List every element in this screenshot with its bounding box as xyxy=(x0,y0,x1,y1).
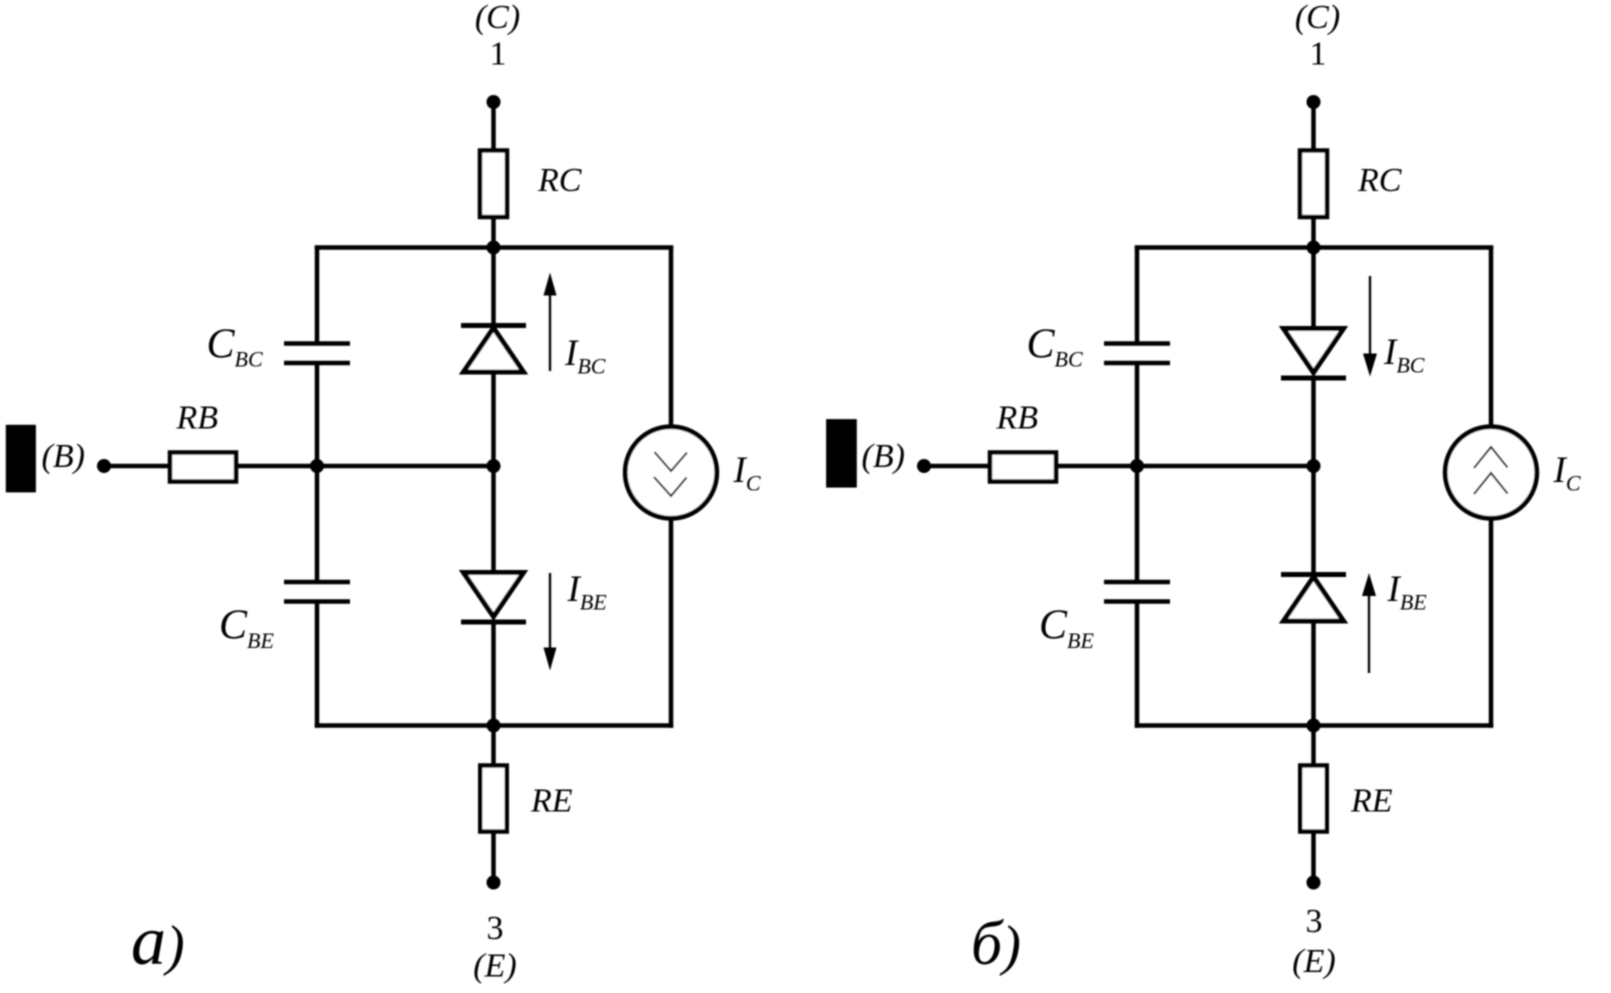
resistor RB circuit b xyxy=(990,453,1056,482)
wire rail to current source circuit b xyxy=(1489,246,1494,429)
junction top node circuit b xyxy=(1307,241,1321,255)
svg-text:3: 3 xyxy=(487,910,504,947)
resistor RC circuit b xyxy=(1300,151,1327,218)
redaction mark circuit b xyxy=(826,419,857,488)
wire bottom rail to RE circuit a xyxy=(491,726,496,768)
svg-text:IC: IC xyxy=(1553,450,1581,496)
svg-text:б): б) xyxy=(971,910,1021,978)
wire CBE to bottom rail circuit a xyxy=(315,604,320,728)
svg-text:(E): (E) xyxy=(1292,943,1335,980)
CBE label circuit a xyxy=(219,603,274,654)
RE value label circuit a xyxy=(530,783,573,820)
current source chevrons circuit b xyxy=(1474,447,1508,494)
svg-text:CBC: CBC xyxy=(207,322,263,372)
capacitor CBE circuit b xyxy=(1104,582,1170,602)
wire B to RB circuit b xyxy=(924,464,992,469)
resistor RE circuit a xyxy=(480,766,507,832)
svg-text:a): a) xyxy=(131,903,185,980)
junction top node circuit a xyxy=(487,241,501,255)
svg-text:1: 1 xyxy=(1310,36,1327,73)
current source IC circuit b xyxy=(1445,427,1537,519)
junction base-left node circuit b xyxy=(1130,459,1144,473)
node (E) label circuit b xyxy=(1292,943,1335,980)
svg-text:(E): (E) xyxy=(473,948,516,985)
RB value label circuit b xyxy=(996,400,1039,437)
IC label circuit b xyxy=(1553,450,1581,496)
wire C to RC circuit b xyxy=(1311,102,1316,152)
svg-text:IBE: IBE xyxy=(1387,569,1428,615)
capacitor CBE circuit a xyxy=(284,582,350,602)
svg-text:CBE: CBE xyxy=(1039,603,1094,654)
svg-text:(C): (C) xyxy=(475,0,520,36)
terminal C node circuit b xyxy=(1307,95,1321,109)
svg-text:3: 3 xyxy=(1306,903,1323,940)
wire bottom rail circuit a xyxy=(315,723,673,728)
current source IC circuit a xyxy=(625,427,717,519)
CBC label circuit b xyxy=(1027,322,1083,372)
current arrow IBE circuit b xyxy=(1362,573,1376,673)
capacitor CBC circuit b xyxy=(1104,344,1170,364)
figure label a) xyxy=(131,903,185,980)
wire RC to top rail circuit a xyxy=(491,217,496,250)
wire CBE to bottom rail circuit b xyxy=(1135,604,1140,728)
capacitor CBC circuit a xyxy=(284,344,350,364)
diode VBC circuit b xyxy=(1281,329,1346,379)
wire B to RB circuit a xyxy=(104,464,172,469)
CBE label circuit b xyxy=(1039,603,1094,654)
svg-text:1: 1 xyxy=(490,36,507,73)
junction base-mid node circuit b xyxy=(1307,459,1321,473)
IBC label circuit b xyxy=(1383,332,1425,378)
IBE label circuit b xyxy=(1387,569,1428,615)
svg-text:RB: RB xyxy=(996,400,1039,437)
wire current source to bottom rail circuit b xyxy=(1489,517,1494,728)
terminal E node circuit a xyxy=(487,876,501,890)
RC value label circuit a xyxy=(537,162,582,199)
wire RC to top rail circuit b xyxy=(1311,217,1316,250)
node (C) label circuit b xyxy=(1295,0,1340,36)
wire bottom rail circuit b xyxy=(1135,723,1493,728)
node (B) label circuit b xyxy=(862,438,905,475)
wire bottom rail to RE circuit b xyxy=(1311,726,1316,768)
terminal B node circuit b xyxy=(917,459,931,473)
current arrow IBC circuit a xyxy=(544,273,557,372)
node (E) label circuit a xyxy=(473,948,516,985)
wire RB to base node circuit b xyxy=(1056,464,1314,469)
resistor RE circuit b xyxy=(1300,766,1327,832)
wire current source to bottom rail circuit a xyxy=(669,517,674,728)
svg-text:IC: IC xyxy=(733,450,761,496)
wire base node to diode BE circuit a xyxy=(491,466,496,574)
pin 3 label circuit b xyxy=(1306,903,1323,940)
node (B) label circuit a xyxy=(42,438,85,475)
svg-text:RE: RE xyxy=(530,783,573,820)
wire top rail circuit a xyxy=(315,245,673,250)
pin 1 label circuit b xyxy=(1310,36,1327,73)
diode VBC circuit a xyxy=(461,326,526,373)
wire CBC to base node circuit b xyxy=(1135,365,1140,466)
wire base node to CBE circuit a xyxy=(315,466,320,580)
wire rail to CBC circuit a xyxy=(315,246,320,342)
terminal E node circuit b xyxy=(1307,876,1321,890)
wire rail to diode BC circuit b xyxy=(1311,248,1316,330)
pin 3 label circuit a xyxy=(487,910,504,947)
junction bottom node circuit a xyxy=(487,719,501,733)
svg-text:(C): (C) xyxy=(1295,0,1340,36)
junction base-mid node circuit a xyxy=(487,459,501,473)
svg-text:RC: RC xyxy=(537,162,582,199)
RE value label circuit b xyxy=(1350,783,1393,820)
terminal B node circuit a xyxy=(97,459,111,473)
wire diode BE to bottom rail circuit a xyxy=(491,622,496,726)
diode VBE circuit b xyxy=(1281,575,1346,622)
RB value label circuit a xyxy=(176,400,219,437)
node (C) label circuit a xyxy=(475,0,520,36)
wire CBC to base node circuit a xyxy=(315,365,320,466)
wire diode BC to base node circuit a xyxy=(491,372,496,466)
svg-text:CBC: CBC xyxy=(1027,322,1083,372)
svg-text:RE: RE xyxy=(1350,783,1393,820)
pin 1 label circuit a xyxy=(490,36,507,73)
RC value label circuit b xyxy=(1357,162,1402,199)
current source chevrons circuit a xyxy=(654,452,687,496)
svg-text:RB: RB xyxy=(176,400,219,437)
svg-text:CBE: CBE xyxy=(219,603,274,654)
wire base node to CBE circuit b xyxy=(1135,466,1140,580)
diode VBE circuit a xyxy=(461,573,526,623)
terminal C node circuit a xyxy=(487,95,501,109)
junction base-left node circuit a xyxy=(310,459,324,473)
wire RB to base node circuit a xyxy=(236,464,494,469)
svg-text:IBC: IBC xyxy=(1383,332,1425,378)
figure label b) xyxy=(971,910,1021,978)
wire rail to current source circuit a xyxy=(669,246,674,429)
wire base node to diode BE circuit b xyxy=(1311,466,1316,575)
wire rail to CBC circuit b xyxy=(1135,246,1140,342)
redaction mark circuit a xyxy=(6,425,36,493)
wire rail to diode BC circuit a xyxy=(491,248,496,327)
svg-text:RC: RC xyxy=(1357,162,1402,199)
current arrow IBE circuit a xyxy=(544,573,557,671)
wire diode BE to bottom rail circuit b xyxy=(1311,620,1316,726)
IBC label circuit a xyxy=(564,333,606,379)
IBE label circuit a xyxy=(567,569,608,615)
wire diode BC to base node circuit b xyxy=(1311,378,1316,466)
svg-text:IBC: IBC xyxy=(564,333,606,379)
wire RE to terminal E circuit b xyxy=(1311,832,1316,883)
wire C to RC circuit a xyxy=(491,102,496,152)
wire RE to terminal E circuit a xyxy=(491,832,496,883)
svg-text:IBE: IBE xyxy=(567,569,608,615)
resistor RC circuit a xyxy=(480,151,507,218)
IC label circuit a xyxy=(733,450,761,496)
CBC label circuit a xyxy=(207,322,263,372)
current arrow IBC circuit b xyxy=(1363,276,1377,377)
resistor RB circuit a xyxy=(170,453,236,482)
junction bottom node circuit b xyxy=(1307,719,1321,733)
svg-text:(B): (B) xyxy=(862,438,905,475)
svg-text:(B): (B) xyxy=(42,438,85,475)
wire top rail circuit b xyxy=(1135,245,1493,250)
